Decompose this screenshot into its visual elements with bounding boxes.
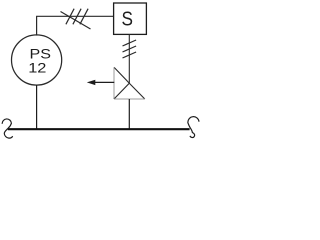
pneumatic line hatch marks (three slashes) on vertical wire: [123, 40, 137, 58]
pneumatic line hatch marks (three slashes) on horizontal signal line: [66, 9, 88, 25]
vent valve: lower-left diagonal from base to apex: [114, 83, 129, 99]
label 12: [28, 60, 46, 76]
vent valve: upper diagonal from left edge top to apex: [114, 67, 129, 83]
vent-to-atmosphere arrow head: [87, 80, 96, 85]
pressure switch PS-12 circle: [11, 35, 61, 85]
vent valve: left vertical edge: [113, 67, 115, 99]
solenoid box S: [114, 3, 147, 34]
vent valve: base line: [114, 98, 145, 100]
pipe break squiggle, left end: [2, 119, 12, 138]
process pipe (bottom heavy line): [8, 128, 190, 130]
wire: vertical from vent valve base down to process pipe: [128, 99, 130, 129]
long counter-slash stroke across the horizontal hatch: [61, 12, 91, 30]
label S: [121, 7, 132, 30]
svg-text:S: S: [121, 7, 132, 30]
vent-to-atmosphere arrow shaft: [94, 81, 115, 83]
wire: vertical drop from signal line to PS-12 circle top: [36, 16, 38, 35]
pipe break squiggle, right end: [188, 117, 199, 138]
vent valve: lower-right diagonal from apex to base: [129, 83, 145, 99]
label PS: [29, 47, 50, 63]
wire: horizontal signal line from above PS-12 to solenoid box: [36, 15, 114, 17]
wire: vertical from PS-12 circle bottom down to process pipe: [36, 85, 38, 129]
wire: vertical from solenoid box down to vent valve apex: [128, 34, 130, 83]
svg-text:12: 12: [28, 60, 46, 76]
